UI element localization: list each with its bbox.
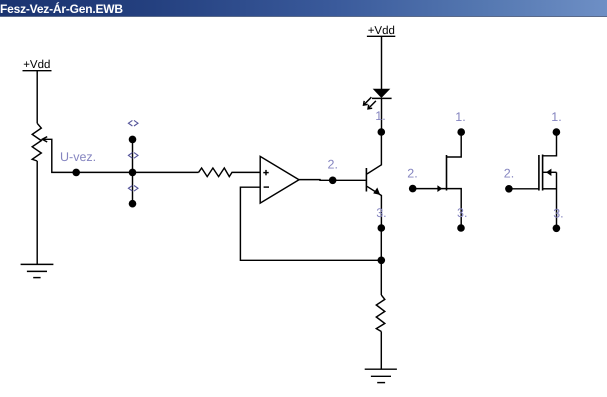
- svg-text:3.: 3.: [457, 206, 467, 220]
- svg-text:+Vdd: +Vdd: [23, 59, 50, 71]
- svg-text:U-vez.: U-vez.: [60, 150, 96, 164]
- svg-text:3.: 3.: [553, 207, 563, 221]
- svg-text:3.: 3.: [376, 206, 386, 220]
- svg-text:2.: 2.: [504, 166, 514, 180]
- svg-text:2.: 2.: [407, 166, 417, 180]
- svg-text:+Vdd: +Vdd: [368, 25, 395, 37]
- svg-text:1.: 1.: [551, 110, 561, 124]
- svg-text:2.: 2.: [328, 158, 338, 172]
- svg-text:1.: 1.: [375, 109, 385, 123]
- svg-text:1.: 1.: [455, 110, 465, 124]
